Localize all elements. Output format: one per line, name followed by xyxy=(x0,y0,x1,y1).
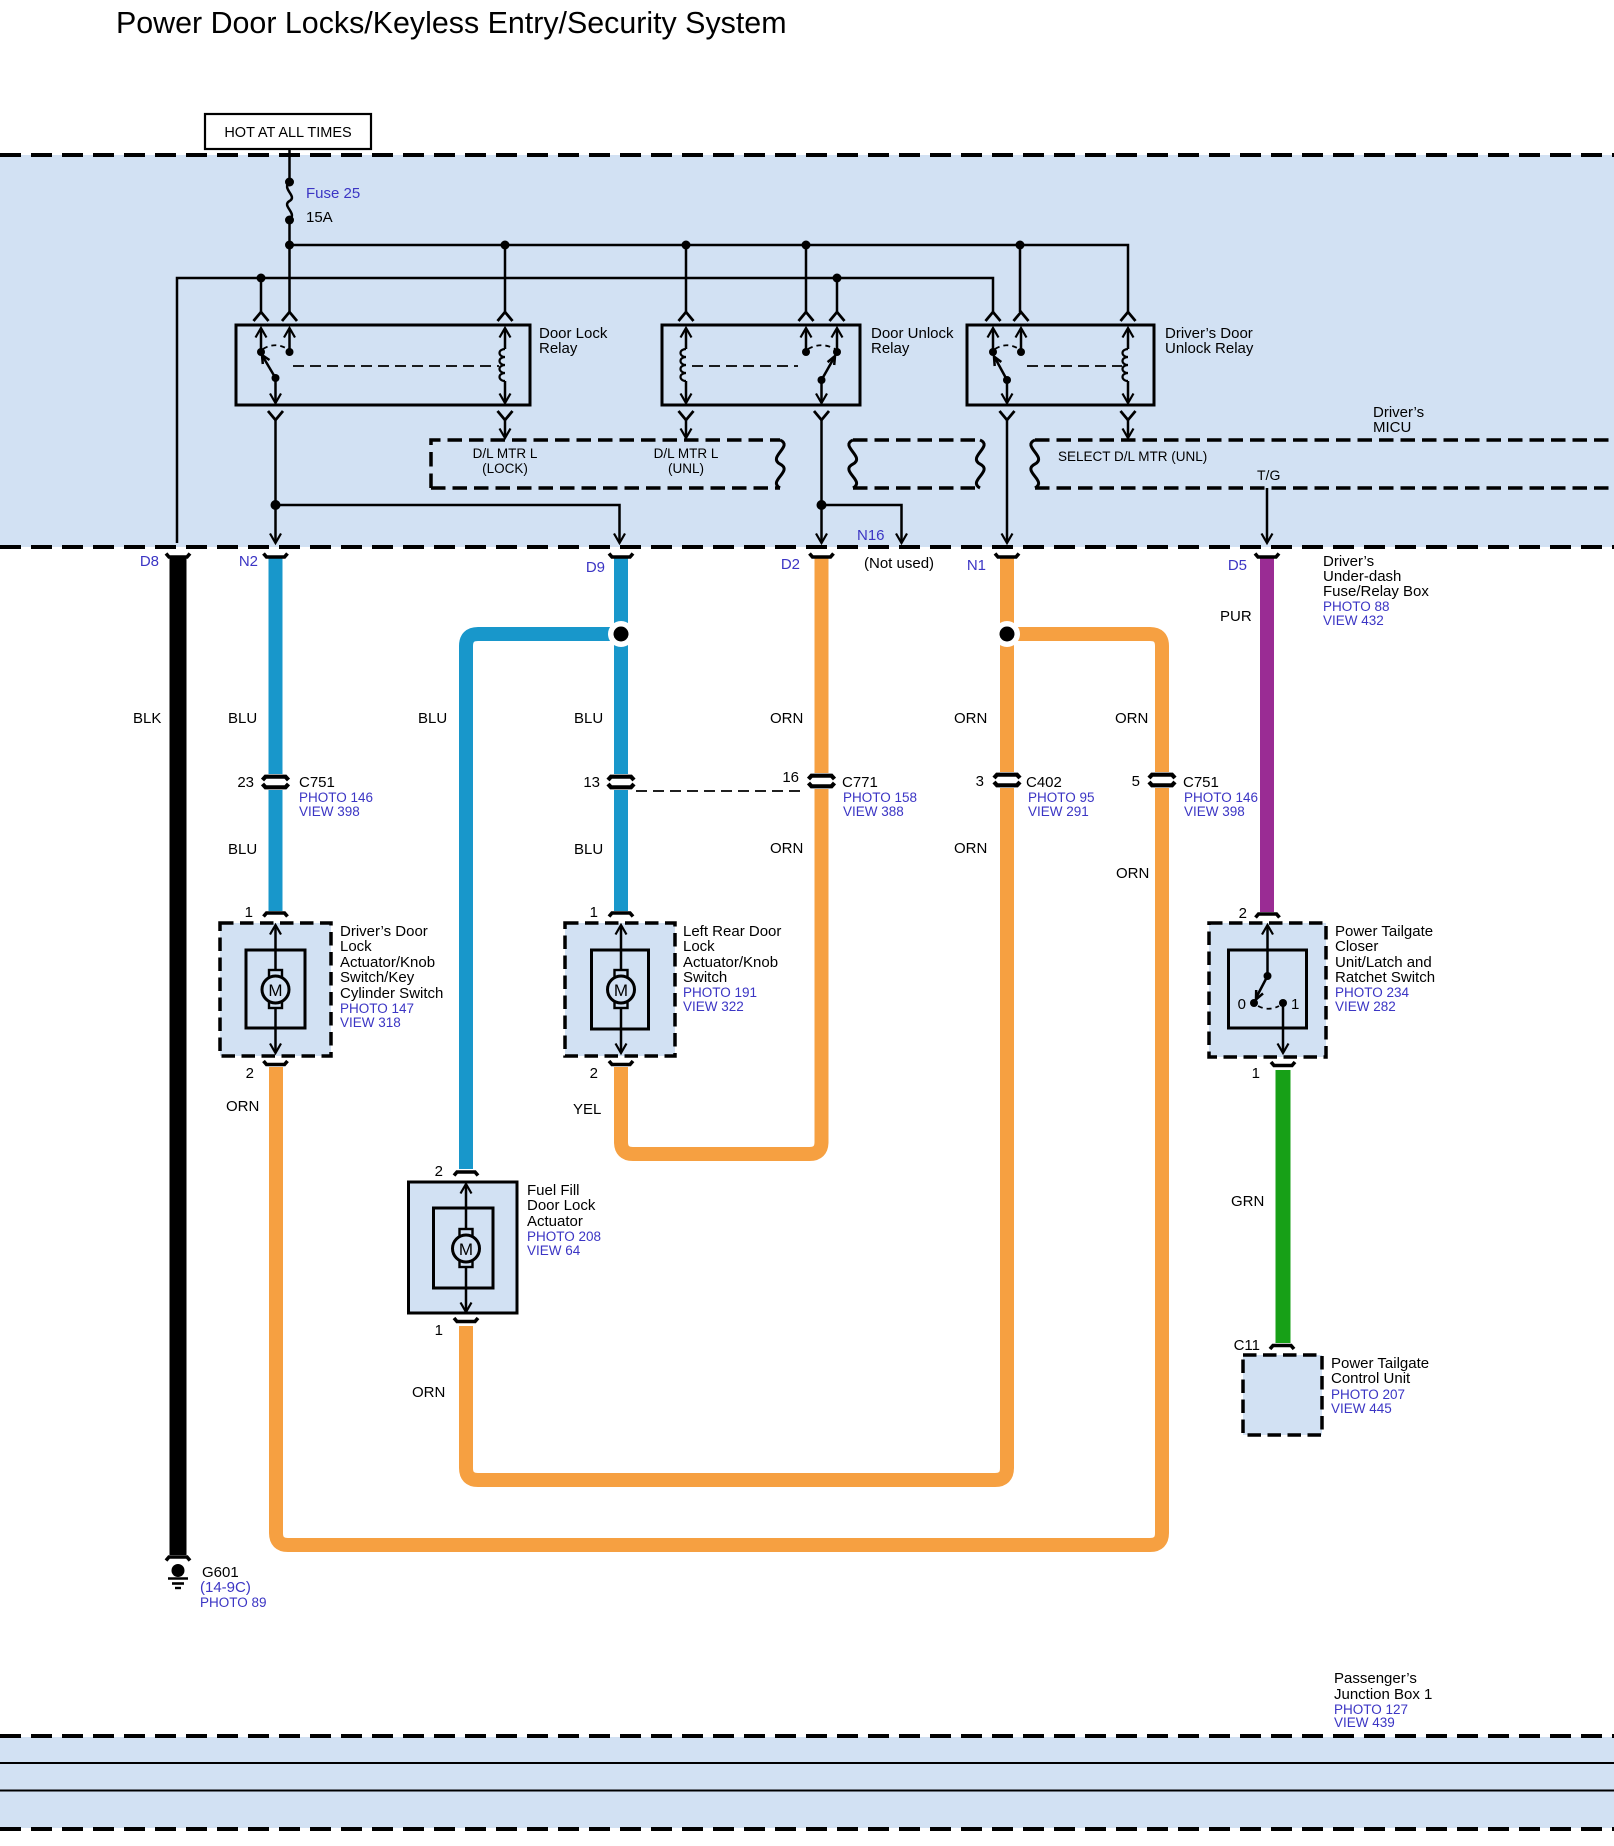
U4 inner rect xyxy=(1229,950,1307,1028)
connector cup D2 xyxy=(810,554,834,558)
svg-text:(Not used): (Not used) xyxy=(864,555,934,572)
svg-text:PUR: PUR xyxy=(1220,608,1252,625)
svg-text:ORN: ORN xyxy=(770,710,803,727)
svg-text:D2: D2 xyxy=(781,556,800,573)
dashed link connector13 to C771 xyxy=(636,790,806,792)
inline connector C771 pin16 xyxy=(809,776,835,787)
svg-text:Relay: Relay xyxy=(871,340,910,357)
svg-text:C751: C751 xyxy=(1183,774,1219,791)
svg-text:1: 1 xyxy=(245,904,253,921)
bottom band solid line 1 xyxy=(0,1762,1614,1764)
relay K2 common to box bottom xyxy=(820,380,823,403)
U3 pin 1 cup xyxy=(454,1318,478,1322)
svg-text:PHOTO 234: PHOTO 234 xyxy=(1335,985,1410,1000)
power tailgate control unit U5 box xyxy=(1243,1355,1322,1435)
svg-text:C751: C751 xyxy=(299,774,335,791)
middle dashed motor box xyxy=(853,438,980,442)
svg-text:Fuse/Relay Box: Fuse/Relay Box xyxy=(1323,583,1429,600)
relay K2 movable arm xyxy=(822,357,835,380)
svg-text:D5: D5 xyxy=(1228,557,1247,574)
relay K1 common to box bottom xyxy=(274,378,277,403)
relay K1 contact dashed arc xyxy=(263,345,288,349)
svg-text:(UNL): (UNL) xyxy=(668,461,704,476)
U2 motor vertical line with arrows xyxy=(616,925,627,935)
U3 motor M3 xyxy=(460,1229,473,1236)
svg-text:(14-9C): (14-9C) xyxy=(200,1579,251,1596)
junction line1 x505 xyxy=(501,241,510,250)
svg-text:PHOTO 208: PHOTO 208 xyxy=(527,1229,601,1244)
svg-text:PHOTO 191: PHOTO 191 xyxy=(683,985,757,1000)
svg-text:HOT AT ALL TIMES: HOT AT ALL TIMES xyxy=(224,125,351,141)
svg-text:3: 3 xyxy=(976,773,984,790)
wire ORN N1 to fuel fill actuator pin1 xyxy=(466,788,1007,1480)
inline connector C751 pin23 xyxy=(263,777,289,788)
svg-text:BLU: BLU xyxy=(228,841,257,858)
svg-text:BLU: BLU xyxy=(574,841,603,858)
relay K1 contact dots xyxy=(257,348,265,356)
junction line1 x1020 xyxy=(1016,241,1025,250)
svg-text:VIEW 398: VIEW 398 xyxy=(299,804,360,819)
wire PUR D5 to tailgate closer pin2 xyxy=(1260,557,1274,912)
relay K2 right contact pin arrow xyxy=(832,328,843,338)
svg-text:Junction Box 1: Junction Box 1 xyxy=(1334,1686,1432,1703)
svg-text:BLU: BLU xyxy=(418,710,447,727)
svg-text:1: 1 xyxy=(1291,996,1299,1013)
svg-text:Control Unit: Control Unit xyxy=(1331,1370,1411,1387)
relay K2 common dot xyxy=(818,376,826,384)
bus line 1 (fused feed) xyxy=(290,245,1129,312)
svg-text:PHOTO 146: PHOTO 146 xyxy=(1184,790,1258,805)
svg-text:Power Door Locks/Keyless Entry: Power Door Locks/Keyless Entry/Security … xyxy=(116,6,787,40)
connector cup D9 xyxy=(609,554,633,558)
svg-text:ORN: ORN xyxy=(954,710,987,727)
relay K1 pin connector chevrons above xyxy=(254,312,269,321)
svg-text:SELECT D/L MTR (UNL): SELECT D/L MTR (UNL) xyxy=(1058,449,1207,464)
wire BLU N2 lower segment to driver's door actuator pin1 xyxy=(269,790,283,911)
relay K1 movable arm xyxy=(263,356,276,378)
svg-text:C11: C11 xyxy=(1234,1337,1260,1354)
relay K2 coil xyxy=(681,328,692,338)
svg-text:N2: N2 xyxy=(239,553,258,570)
wire BLU branch to fuel fill actuator pin2 xyxy=(466,634,621,1169)
svg-text:0: 0 xyxy=(1238,996,1246,1013)
relay K3 common to box bottom xyxy=(1006,380,1009,403)
U1 motor M1 xyxy=(269,970,282,977)
wire BLU N2 upper segment xyxy=(269,557,283,774)
relay K3 contact dots xyxy=(989,348,997,356)
svg-text:16: 16 xyxy=(782,769,799,786)
svg-text:D9: D9 xyxy=(586,559,605,576)
svg-text:VIEW 445: VIEW 445 xyxy=(1331,1401,1392,1416)
relay K3 below-box chevrons xyxy=(1000,411,1015,420)
U3 inner rect xyxy=(434,1208,494,1288)
fuse 25 symbol xyxy=(285,178,294,187)
wire line1 to relay2 coil xyxy=(685,245,688,312)
svg-text:ORN: ORN xyxy=(770,840,803,857)
U1 inner rect xyxy=(246,950,305,1028)
wire line1 to relay1 coil xyxy=(504,245,507,312)
relay K3 right contact pin arrow xyxy=(1016,328,1027,338)
connector cup N2 xyxy=(264,554,288,558)
wire line1 to relay2 left contact xyxy=(805,245,808,312)
svg-text:N16: N16 xyxy=(857,527,885,544)
relay K3 contact dashed arc xyxy=(995,345,1019,349)
inline connector C402 pin3 xyxy=(994,775,1020,786)
svg-text:ORN: ORN xyxy=(954,840,987,857)
svg-text:Fuse 25: Fuse 25 xyxy=(306,185,360,202)
relay K3 Driver's Door Unlock Relay box xyxy=(967,325,1154,405)
svg-text:PHOTO 89: PHOTO 89 xyxy=(200,1595,267,1610)
D/L MTR L dashed box xyxy=(431,440,780,488)
svg-text:D/L MTR L: D/L MTR L xyxy=(654,446,719,461)
svg-text:2: 2 xyxy=(246,1065,254,1082)
wire ORN D2 upper segment xyxy=(815,557,829,773)
relay K2 coil-switch dashed link xyxy=(692,365,798,367)
svg-text:VIEW 318: VIEW 318 xyxy=(340,1015,401,1030)
svg-text:T/G: T/G xyxy=(1257,467,1280,483)
U5 C11 cup xyxy=(1270,1346,1294,1350)
svg-text:VIEW 398: VIEW 398 xyxy=(1184,804,1245,819)
wire ORN N1 upper segment xyxy=(1000,557,1014,772)
U4 contact 1 dot xyxy=(1279,999,1287,1007)
driver's door lock actuator U1 box xyxy=(220,923,331,1056)
wire line1 to relay1 right pin xyxy=(288,245,291,312)
relay K2 pin connector chevrons above xyxy=(679,312,694,321)
bottom band bottom dashed line xyxy=(0,1827,1614,1831)
U4 contact 0 dot xyxy=(1250,999,1258,1007)
relay K3 left contact pin arrow xyxy=(988,328,999,338)
relay K3 coil xyxy=(1123,328,1134,338)
U3 motor vertical line with arrows xyxy=(461,1184,472,1194)
svg-text:BLK: BLK xyxy=(133,710,161,727)
relay K2 below-box chevrons xyxy=(679,411,694,420)
svg-text:VIEW 439: VIEW 439 xyxy=(1334,1715,1395,1730)
relay K1 coil-switch dashed link xyxy=(293,365,499,367)
relay K1 left contact pin arrow xyxy=(256,328,267,338)
wire branch to N16 (not used) xyxy=(822,505,902,542)
svg-text:PHOTO 146: PHOTO 146 xyxy=(299,790,373,805)
U4 switch common dot xyxy=(1264,972,1272,980)
fuel fill door lock actuator U3 box xyxy=(409,1182,518,1313)
svg-text:Actuator: Actuator xyxy=(527,1213,583,1230)
U4 pin 1 cup xyxy=(1271,1062,1295,1066)
inline connector C751 pin5 xyxy=(1149,775,1175,786)
svg-text:1: 1 xyxy=(435,1322,443,1339)
svg-text:Closer: Closer xyxy=(1335,938,1378,955)
U1 pin 1 cup xyxy=(264,913,288,917)
svg-text:2: 2 xyxy=(435,1163,443,1180)
svg-text:PHOTO 88: PHOTO 88 xyxy=(1323,599,1390,614)
svg-text:VIEW 388: VIEW 388 xyxy=(843,804,904,819)
relay K1 common dot xyxy=(272,374,280,382)
relay K1 Door Lock Relay box xyxy=(236,325,530,405)
svg-text:VIEW 322: VIEW 322 xyxy=(683,999,744,1014)
wire ORN outer loop to driver's door actuator pin2 xyxy=(276,788,1162,1545)
wire ORN/YEL D2 to left rear actuator pin2 xyxy=(621,789,822,1154)
relay K3 common dot xyxy=(1003,376,1011,384)
svg-text:BLU: BLU xyxy=(228,710,257,727)
U4 switch arm xyxy=(1257,976,1268,997)
svg-text:1: 1 xyxy=(1252,1065,1260,1082)
junction dot N1/outer loop xyxy=(994,621,1020,647)
wire relay1 common down to junction and N2 exit xyxy=(274,420,277,542)
relay K1 coil xyxy=(500,328,511,338)
wire BLK D8 to ground xyxy=(170,557,187,1555)
wire relay3 coil to SELECT D/L MTR xyxy=(1127,420,1130,437)
svg-text:Relay: Relay xyxy=(539,340,578,357)
svg-text:VIEW 64: VIEW 64 xyxy=(527,1243,581,1258)
svg-text:13: 13 xyxy=(583,774,600,791)
wire fuse to bus line 1 xyxy=(288,220,291,245)
svg-text:Door Lock: Door Lock xyxy=(527,1197,596,1214)
svg-text:Ratchet Switch: Ratchet Switch xyxy=(1335,969,1435,986)
wire from HOT box to fuse xyxy=(288,149,291,182)
relay K2 contact dots xyxy=(802,348,810,356)
junction fuse/line1 xyxy=(285,241,294,250)
connector cup N1 xyxy=(995,554,1019,558)
svg-text:PHOTO 207: PHOTO 207 xyxy=(1331,1387,1405,1402)
connector cup D5 xyxy=(1255,554,1279,558)
node junction relay1 common / D9 branch xyxy=(271,500,281,510)
U1 motor vertical line with arrows xyxy=(270,925,281,935)
wire line2 to relay1 left pin xyxy=(260,278,263,312)
svg-text:ORN: ORN xyxy=(226,1098,259,1115)
svg-text:ORN: ORN xyxy=(412,1384,445,1401)
relay K3 coil-switch dashed link xyxy=(1027,365,1122,367)
svg-text:MICU: MICU xyxy=(1373,419,1411,436)
svg-text:Switch: Switch xyxy=(683,969,727,986)
U2 pin 2 cup xyxy=(609,1061,633,1065)
svg-text:2: 2 xyxy=(590,1065,598,1082)
junction line1 x686 xyxy=(682,241,691,250)
relay K2 contact dashed arc xyxy=(808,345,835,349)
wire relay2 coil to D/L MTR L (UNL) xyxy=(685,420,688,437)
ground G601 xyxy=(166,1557,190,1561)
relay K2 Door Unlock Relay box xyxy=(662,325,860,405)
svg-text:Lock: Lock xyxy=(683,938,715,955)
svg-text:ORN: ORN xyxy=(1116,865,1149,882)
junction dot D9/fuel fill branch xyxy=(608,621,634,647)
node junction relay2 common / N16 branch xyxy=(817,500,827,510)
HOT AT ALL TIMES box xyxy=(205,114,371,149)
svg-text:Cylinder Switch: Cylinder Switch xyxy=(340,985,443,1002)
relay K3 movable arm xyxy=(995,357,1008,380)
svg-text:23: 23 xyxy=(237,774,254,791)
junction line1 x806 xyxy=(802,241,811,250)
svg-text:BLU: BLU xyxy=(574,710,603,727)
svg-text:D/L MTR L: D/L MTR L xyxy=(473,446,538,461)
svg-text:M: M xyxy=(268,981,282,1000)
wire relay2 common down to junction and D2 exit xyxy=(820,420,823,542)
svg-text:M: M xyxy=(614,981,628,1000)
svg-text:VIEW 282: VIEW 282 xyxy=(1335,999,1396,1014)
svg-text:VIEW 432: VIEW 432 xyxy=(1323,613,1384,628)
wire BLU D9 lower segment to left rear actuator pin1 xyxy=(614,790,628,911)
svg-text:N1: N1 xyxy=(967,557,986,574)
svg-text:Switch/Key: Switch/Key xyxy=(340,969,415,986)
junction line2 x837 xyxy=(833,274,842,283)
U2 inner rect xyxy=(592,950,649,1029)
wire GRN tailgate closer pin1 to C11 xyxy=(1276,1070,1291,1343)
bottom band top dashed line xyxy=(0,1734,1614,1738)
junction line2 x261 xyxy=(257,274,266,283)
svg-text:Passenger’s: Passenger’s xyxy=(1334,1670,1417,1687)
svg-text:PHOTO 147: PHOTO 147 xyxy=(340,1001,414,1016)
svg-text:ORN: ORN xyxy=(1115,710,1148,727)
svg-text:1: 1 xyxy=(590,904,598,921)
bottom band solid line 2 xyxy=(0,1790,1614,1792)
wire line2 to relay2 right contact xyxy=(836,278,839,312)
svg-text:GRN: GRN xyxy=(1231,1193,1264,1210)
svg-text:M: M xyxy=(459,1240,473,1259)
wire relay3 common to N1 exit xyxy=(1006,420,1009,542)
bottom continuation band xyxy=(0,1737,1614,1828)
relay K1 right contact pin arrow xyxy=(284,328,295,338)
svg-text:PHOTO 95: PHOTO 95 xyxy=(1028,790,1095,805)
SELECT D/L MTR (UNL) dashed box xyxy=(1035,438,1614,442)
U4 pin 2 cup xyxy=(1256,914,1280,918)
U1 pin 2 cup xyxy=(264,1061,288,1065)
svg-text:2: 2 xyxy=(1239,905,1247,922)
relay K2 left contact pin arrow xyxy=(801,328,812,338)
power tailgate closer unit U4 box xyxy=(1209,923,1326,1057)
U2 pin 1 cup xyxy=(609,913,633,917)
svg-text:(LOCK): (LOCK) xyxy=(482,461,528,476)
svg-text:C771: C771 xyxy=(842,774,878,791)
svg-text:VIEW 291: VIEW 291 xyxy=(1028,804,1089,819)
relay K3 pin connector chevrons above xyxy=(986,312,1001,321)
svg-text:Unlock Relay: Unlock Relay xyxy=(1165,340,1254,357)
bottom dashed boundary of fuse/relay box xyxy=(0,545,1614,549)
svg-text:YEL: YEL xyxy=(573,1101,601,1118)
wire relay1 coil to D/L MTR L (LOCK) xyxy=(504,420,507,437)
T/G wire xyxy=(1266,488,1269,542)
top dashed boundary of fuse/relay box xyxy=(0,153,1614,157)
U4 line from contact 1 down xyxy=(1282,1003,1285,1052)
wire branch to D9 exit xyxy=(276,505,620,542)
inline connector 13 xyxy=(608,777,634,788)
svg-text:Lock: Lock xyxy=(340,938,372,955)
U2 motor M2 xyxy=(615,970,628,977)
wire line1 to relay3 right contact xyxy=(1019,245,1022,312)
U3 pin 2 cup xyxy=(454,1172,478,1176)
relay K1 below-box chevrons xyxy=(268,411,283,420)
svg-text:C402: C402 xyxy=(1026,774,1062,791)
svg-text:5: 5 xyxy=(1132,773,1140,790)
wire ORN branch N1 to outer loop top xyxy=(1007,634,1162,772)
svg-text:D8: D8 xyxy=(140,553,159,570)
fuse/relay box blue region xyxy=(0,155,1614,547)
svg-text:PHOTO 158: PHOTO 158 xyxy=(843,790,917,805)
bus line 2 xyxy=(177,278,993,543)
U4 switch line up xyxy=(1262,925,1273,935)
svg-text:15A: 15A xyxy=(306,209,333,226)
left rear door lock actuator U2 box xyxy=(565,923,675,1056)
U4 contact dashed arc xyxy=(1258,1006,1279,1009)
wire BLU D9 upper segment xyxy=(614,557,628,774)
connector cup D8 xyxy=(166,554,190,558)
